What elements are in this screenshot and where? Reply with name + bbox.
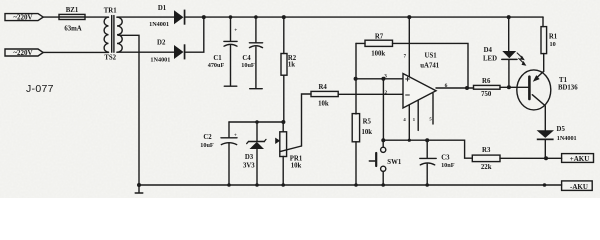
svg-text:C3: C3: [441, 154, 450, 161]
svg-text:100k: 100k: [371, 50, 385, 57]
svg-text:~220V: ~220V: [13, 14, 32, 22]
svg-text:10uF: 10uF: [200, 142, 214, 149]
svg-text:TS2: TS2: [104, 54, 116, 61]
svg-text:R3: R3: [482, 147, 491, 154]
svg-text:2: 2: [385, 90, 388, 96]
svg-text:10uF: 10uF: [241, 62, 255, 69]
svg-text:+: +: [234, 28, 237, 34]
svg-text:D4: D4: [484, 47, 493, 54]
svg-text:D2: D2: [157, 40, 166, 47]
svg-text:1N4001: 1N4001: [149, 21, 169, 28]
svg-text:750: 750: [481, 91, 492, 98]
svg-text:uA741: uA741: [420, 63, 439, 70]
svg-text:D1: D1: [158, 5, 167, 12]
svg-text:10k: 10k: [362, 129, 373, 136]
svg-text:+AKU: +AKU: [570, 155, 590, 163]
svg-text:6: 6: [445, 83, 448, 89]
svg-text:63mA: 63mA: [64, 26, 81, 33]
svg-text:R1: R1: [549, 33, 558, 40]
svg-text:D5: D5: [557, 126, 566, 133]
svg-text:LED: LED: [483, 55, 497, 62]
svg-text:470uF: 470uF: [208, 62, 225, 69]
svg-text:J-077: J-077: [26, 83, 54, 95]
svg-text:-AKU: -AKU: [570, 183, 588, 191]
svg-text:1k: 1k: [288, 62, 295, 69]
svg-text:~220V: ~220V: [13, 49, 32, 57]
svg-text:10k: 10k: [291, 162, 302, 169]
svg-text:1N4001: 1N4001: [557, 135, 577, 142]
svg-text:R6: R6: [482, 78, 491, 85]
svg-text:10: 10: [550, 41, 556, 48]
svg-text:D3: D3: [245, 154, 254, 161]
svg-text:10k: 10k: [318, 100, 329, 107]
svg-text:T1: T1: [559, 77, 568, 84]
svg-text:10nF: 10nF: [441, 162, 455, 169]
svg-text:R7: R7: [375, 34, 384, 41]
svg-text:BZ1: BZ1: [66, 7, 79, 14]
svg-text:US1: US1: [425, 52, 438, 59]
svg-text:C2: C2: [203, 134, 212, 141]
svg-text:BD136: BD136: [558, 85, 578, 92]
svg-text:PR1: PR1: [290, 155, 303, 162]
svg-text:SW1: SW1: [387, 159, 402, 166]
svg-text:TR1: TR1: [104, 7, 117, 14]
svg-text:1N4001: 1N4001: [150, 56, 170, 63]
svg-text:R5: R5: [363, 119, 372, 126]
svg-text:22k: 22k: [481, 164, 492, 171]
svg-text:3V3: 3V3: [243, 163, 255, 170]
svg-text:+: +: [234, 134, 237, 139]
svg-text:3: 3: [384, 74, 387, 80]
svg-text:R4: R4: [318, 84, 327, 91]
